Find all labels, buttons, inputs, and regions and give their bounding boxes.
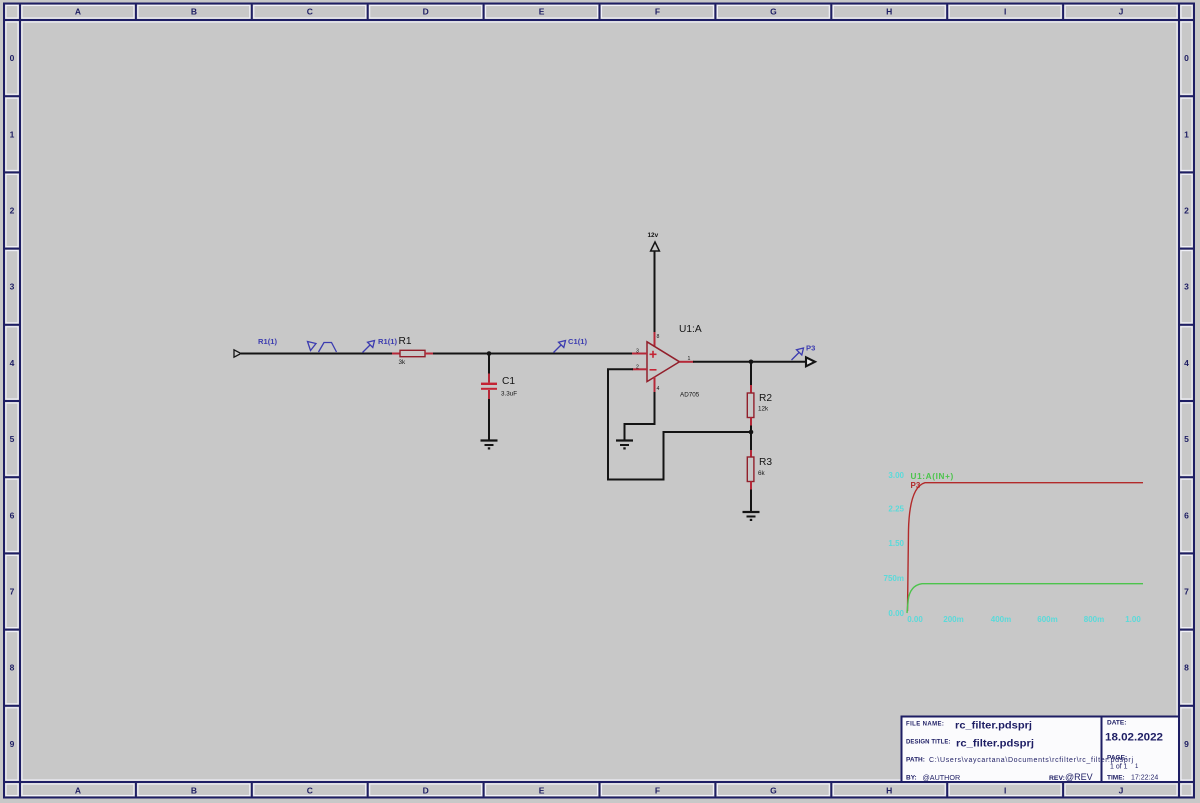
svg-text:1.00: 1.00	[1125, 615, 1141, 624]
svg-text:2: 2	[1184, 206, 1189, 216]
title block text	[906, 720, 1163, 783]
svg-text:PAGE:: PAGE:	[1107, 755, 1127, 762]
svg-text:I: I	[1004, 786, 1006, 796]
svg-text:400m: 400m	[991, 615, 1011, 624]
svg-text:12k: 12k	[758, 406, 769, 413]
svg-text:B: B	[191, 786, 197, 796]
svg-text:5: 5	[1184, 434, 1189, 444]
svg-text:R1: R1	[399, 336, 412, 347]
svg-text:U1:A(IN+): U1:A(IN+)	[911, 472, 954, 481]
svg-text:REV:: REV:	[1049, 775, 1065, 782]
svg-text:R2: R2	[759, 393, 772, 404]
resistor R3	[747, 432, 772, 490]
pulse generator symbol	[308, 342, 337, 353]
svg-text:4: 4	[1184, 358, 1189, 368]
svg-text:3k: 3k	[399, 359, 407, 366]
resistor R2	[747, 393, 772, 432]
svg-text:R1(1): R1(1)	[258, 337, 277, 346]
svg-text:0: 0	[1184, 53, 1189, 63]
output wire	[693, 361, 806, 363]
svg-text:9: 9	[10, 739, 15, 749]
svg-text:rc_filter.pdsprj: rc_filter.pdsprj	[956, 739, 1034, 750]
svg-text:H: H	[886, 7, 892, 17]
svg-text:18.02.2022: 18.02.2022	[1105, 732, 1163, 744]
svg-text:5: 5	[10, 434, 15, 444]
svg-text:A: A	[75, 786, 81, 796]
voltage probe C1(1)	[554, 341, 566, 353]
svg-text:F: F	[655, 7, 660, 17]
graph trace label P3	[911, 481, 921, 490]
svg-text:17:22:24: 17:22:24	[1131, 775, 1158, 782]
svg-text:6: 6	[10, 510, 15, 520]
junction node (output/R2)	[749, 360, 754, 365]
wire output junction to R2	[750, 362, 752, 393]
feedback wire pin2 to R2/R3 node	[608, 369, 751, 479]
svg-text:I: I	[1004, 7, 1006, 17]
svg-text:750m: 750m	[884, 574, 904, 583]
svg-text:0: 0	[10, 53, 15, 63]
svg-text:E: E	[539, 786, 545, 796]
svg-text:1: 1	[10, 129, 15, 139]
svg-text:R3: R3	[759, 457, 772, 468]
svg-text:C1: C1	[502, 376, 515, 387]
svg-text:C:\Users\vaycartana\Documents\: C:\Users\vaycartana\Documents\rcfilter\r…	[929, 757, 1133, 764]
svg-text:B: B	[191, 7, 197, 17]
svg-text:F: F	[655, 786, 660, 796]
input terminal	[234, 350, 241, 357]
svg-text:8: 8	[657, 334, 660, 340]
svg-text:DATE:: DATE:	[1107, 720, 1126, 727]
svg-text:J: J	[1119, 786, 1124, 796]
svg-text:R1(1): R1(1)	[378, 337, 397, 346]
svg-text:A: A	[75, 7, 81, 17]
svg-text:FILE NAME:: FILE NAME:	[906, 722, 944, 728]
svg-text:3: 3	[636, 349, 639, 355]
svg-text:P3: P3	[806, 344, 815, 353]
svg-text:1: 1	[1184, 129, 1189, 139]
graph trace label U1:A(IN+)	[911, 472, 954, 481]
voltage probe R1(1)	[363, 341, 375, 353]
svg-text:8: 8	[10, 663, 15, 673]
svg-text:E: E	[539, 7, 545, 17]
svg-text:1 of 1: 1 of 1	[1110, 764, 1128, 771]
svg-text:1.50: 1.50	[888, 539, 904, 548]
graph trace U1:A(IN+) (green)	[907, 584, 1143, 613]
output terminal	[806, 357, 815, 366]
svg-text:3.00: 3.00	[888, 471, 904, 480]
svg-text:7: 7	[1184, 587, 1189, 597]
voltage probe P3	[792, 348, 804, 360]
svg-text:6k: 6k	[758, 470, 766, 477]
svg-text:600m: 600m	[1037, 615, 1057, 624]
svg-text:C: C	[307, 786, 313, 796]
svg-text:2.25: 2.25	[888, 505, 904, 514]
svg-text:J: J	[1119, 7, 1124, 17]
wire R1 to op-amp pin 3	[433, 353, 638, 355]
svg-text:3.3uF: 3.3uF	[501, 391, 517, 398]
svg-text:12v: 12v	[648, 232, 659, 239]
svg-text:BY:: BY:	[906, 775, 917, 782]
svg-text:D: D	[423, 7, 429, 17]
svg-text:U1:A: U1:A	[679, 324, 702, 335]
svg-text:TIME:: TIME:	[1107, 775, 1125, 782]
svg-text:C1(1): C1(1)	[568, 337, 587, 346]
svg-text:C: C	[307, 7, 313, 17]
wire input to R1	[241, 353, 392, 355]
op-amp U1:A	[647, 324, 702, 399]
ground (below C1)	[481, 441, 498, 450]
ground (op-amp V-)	[616, 441, 633, 450]
svg-text:0.00: 0.00	[888, 609, 904, 618]
svg-text:PATH:: PATH:	[906, 757, 925, 764]
graph trace P3 (red)	[908, 483, 1144, 611]
wire C1 to ground	[488, 399, 490, 440]
graph y-axis labels	[884, 471, 905, 618]
op-amp pin stubs	[632, 354, 694, 393]
graph x-axis labels	[907, 615, 1141, 624]
svg-text:8: 8	[1184, 663, 1189, 673]
svg-text:@AUTHOR: @AUTHOR	[923, 773, 961, 782]
power rail 12V	[648, 232, 660, 347]
svg-text:3: 3	[1184, 282, 1189, 292]
svg-text:9: 9	[1184, 739, 1189, 749]
svg-text:200m: 200m	[943, 615, 963, 624]
svg-text:1: 1	[688, 356, 691, 362]
svg-text:800m: 800m	[1084, 615, 1104, 624]
capacitor C1	[481, 354, 517, 400]
svg-text:H: H	[886, 786, 892, 796]
svg-text:4: 4	[10, 358, 15, 368]
op-amp pin numbers	[636, 349, 691, 393]
svg-text:G: G	[770, 7, 777, 17]
svg-text:AD705: AD705	[680, 392, 700, 399]
svg-text:3: 3	[10, 282, 15, 292]
wire R3 to ground	[750, 490, 752, 512]
svg-text:2: 2	[10, 206, 15, 216]
svg-text:DESIGN TITLE:: DESIGN TITLE:	[906, 740, 951, 746]
junction node (R2/R3/feedback)	[749, 430, 754, 435]
svg-text:2: 2	[636, 365, 639, 371]
svg-text:7: 7	[10, 587, 15, 597]
svg-text:6: 6	[1184, 510, 1189, 520]
generator label R1(1)	[258, 337, 277, 346]
svg-text:0.00: 0.00	[907, 615, 923, 624]
svg-text:G: G	[770, 786, 777, 796]
junction node (R1/C1)	[487, 351, 492, 356]
svg-text:@REV: @REV	[1065, 772, 1093, 782]
svg-text:4: 4	[657, 386, 660, 392]
wire op-amp V- to ground	[625, 392, 655, 440]
svg-text:D: D	[423, 786, 429, 796]
title block	[902, 717, 1180, 783]
svg-text:rc_filter.pdsprj: rc_filter.pdsprj	[955, 721, 1032, 732]
resistor R1	[392, 336, 433, 366]
ground (below R3)	[743, 512, 760, 521]
